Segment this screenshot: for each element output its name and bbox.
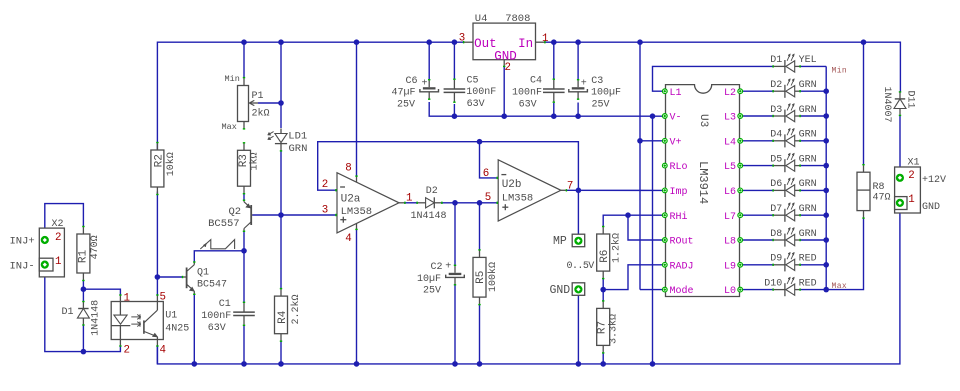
- wire LED D3 cathode to pin L3: [743, 115, 774, 117]
- junction Q1 emitter / ground: [192, 361, 198, 367]
- wire R5 top lead: [479, 203, 481, 251]
- wire R2 bottom to Q1 base junction: [156, 192, 158, 278]
- junction LED D8 / bus: [823, 237, 829, 243]
- svg-text:ROut: ROut: [670, 237, 694, 248]
- wire MP measuring point feed: [577, 190, 579, 237]
- resistor R2: [156, 143, 158, 150]
- capacitor C6: [428, 80, 430, 87]
- wire C4 bottom lead: [553, 103, 555, 116]
- svg-text:D1: D1: [62, 307, 74, 318]
- wire R3 bottom to Q2 emitter: [243, 194, 245, 201]
- LED D4 GRN: [784, 134, 786, 147]
- svg-text:2: 2: [322, 179, 328, 191]
- wire R7 bottom lead: [602, 353, 604, 364]
- svg-text:3.3kΩ: 3.3kΩ: [607, 314, 619, 344]
- pin V+ (U3 left): [662, 138, 667, 143]
- junction LED D10 / bus: [823, 287, 829, 293]
- wire divider junction to RADJ jog: [603, 265, 662, 290]
- svg-text:D6: D6: [770, 179, 782, 190]
- wire LED D4 cathode to pin L4: [743, 140, 774, 142]
- wire LED D3 anode to bus: [800, 115, 827, 117]
- svg-text:R1: R1: [77, 250, 89, 264]
- junction X2-1/D1/U1 pin2: [81, 349, 87, 355]
- svg-text:+: +: [581, 79, 587, 90]
- wire U2a pin2 feedback loop: [318, 142, 579, 191]
- svg-text:D8: D8: [770, 229, 782, 240]
- svg-text:U1: U1: [165, 311, 177, 322]
- wire D1 bottom node to U1 pin2: [83, 346, 120, 352]
- wire C2 bottom lead: [454, 284, 456, 364]
- optocoupler U1: [111, 302, 163, 340]
- svg-text:5: 5: [485, 192, 491, 204]
- svg-text:L0: L0: [724, 286, 736, 297]
- svg-text:P1: P1: [252, 91, 264, 102]
- junction LED D9 / bus: [823, 262, 829, 268]
- svg-text:L6: L6: [724, 187, 736, 198]
- junction C3 / rail: [575, 39, 581, 45]
- svg-text:1kΩ: 1kΩ: [248, 152, 260, 170]
- pin RHi (U3 left): [662, 213, 667, 218]
- LED D5 GRN: [784, 159, 786, 172]
- svg-text:R2: R2: [153, 154, 165, 167]
- capacitor C5: [453, 80, 455, 89]
- svg-text:1N4007: 1N4007: [881, 86, 892, 122]
- pin Mode (U3 left): [662, 287, 667, 292]
- pin L2 (U3 right): [738, 89, 743, 94]
- wire LED D5 cathode to pin L5: [743, 165, 774, 167]
- svg-text:C4: C4: [530, 76, 542, 87]
- svg-text:Min: Min: [832, 66, 848, 75]
- wire C5 top lead: [453, 42, 455, 79]
- junction LED D3 / bus: [823, 113, 829, 119]
- svg-text:63V: 63V: [467, 99, 485, 110]
- svg-text:D11: D11: [904, 90, 915, 108]
- wire R4 bottom lead: [280, 341, 282, 364]
- wire Q2 base to U2a pin3: [253, 214, 336, 216]
- capacitor C2: [454, 266, 456, 273]
- svg-text:C3: C3: [591, 76, 603, 87]
- wire R5 bottom lead: [479, 304, 481, 364]
- wire C1 bottom lead: [243, 325, 245, 364]
- transistor Q2: [250, 205, 252, 225]
- svg-text:Min: Min: [225, 74, 240, 84]
- svg-text:C6: C6: [406, 76, 418, 87]
- pin L1 (U3 left): [662, 89, 667, 94]
- LED D7 GRN: [784, 209, 786, 222]
- junction U4 GND / V- bus: [501, 113, 507, 119]
- pin V- (U3 left): [662, 114, 667, 119]
- svg-text:63V: 63V: [208, 323, 226, 334]
- junction C2 / ground: [452, 361, 458, 367]
- svg-text:+12V: +12V: [922, 175, 946, 186]
- svg-text:0..5V: 0..5V: [567, 261, 595, 272]
- svg-text:2: 2: [124, 345, 130, 357]
- IC U3 LM3914: [666, 85, 740, 297]
- LED D2 GRN: [784, 85, 786, 98]
- diode D11: [895, 98, 905, 100]
- op-amp U2b: [498, 160, 561, 221]
- svg-text:L9: L9: [724, 261, 736, 272]
- junction sawtooth node: [241, 248, 247, 254]
- svg-text:100nF: 100nF: [512, 88, 542, 99]
- junction op-amp pin4 / ground: [354, 361, 360, 367]
- svg-text:LM358: LM358: [502, 192, 534, 204]
- svg-text:6: 6: [483, 168, 489, 180]
- wire LED D8 anode to bus: [800, 239, 827, 241]
- svg-text:R4: R4: [277, 310, 289, 324]
- pin L4 (U3 right): [738, 138, 743, 143]
- wire LED D2 anode to bus: [800, 90, 827, 92]
- svg-text:R5: R5: [475, 271, 487, 284]
- svg-text:R7: R7: [596, 321, 608, 334]
- wire Mode pin connection: [640, 289, 662, 291]
- svg-text:7: 7: [567, 181, 573, 193]
- wire D11 cathode lead: [899, 91, 901, 94]
- svg-text:47Ω: 47Ω: [873, 193, 891, 204]
- svg-text:R6: R6: [599, 250, 611, 263]
- svg-text:D7: D7: [770, 204, 782, 215]
- svg-text:GRN: GRN: [799, 204, 817, 215]
- svg-text:Mode: Mode: [670, 285, 694, 297]
- junction LED D5 / bus: [823, 163, 829, 169]
- svg-text:D2: D2: [770, 80, 782, 91]
- svg-text:3: 3: [459, 32, 465, 44]
- svg-text:470Ω: 470Ω: [90, 235, 101, 259]
- wire C3 bottom lead: [577, 103, 579, 117]
- junction C6 / rail: [426, 39, 432, 45]
- LED LD1: [280, 129, 282, 134]
- svg-text:D3: D3: [770, 105, 782, 116]
- junction V+ feed / rail: [637, 39, 643, 45]
- svg-text:100nF: 100nF: [466, 87, 496, 98]
- transistor Q1: [186, 268, 188, 289]
- junction Q2 base node: [278, 212, 284, 218]
- LED D3 GRN: [784, 110, 786, 123]
- svg-text:GRN: GRN: [799, 229, 817, 240]
- svg-text:8: 8: [345, 163, 351, 175]
- svg-text:1N4148: 1N4148: [91, 300, 102, 336]
- junction C4 / V- bus: [551, 113, 557, 119]
- junction V- branch / ground: [650, 361, 656, 367]
- wire C2 top lead: [454, 203, 456, 265]
- svg-text:X1: X1: [908, 158, 920, 169]
- junction GND pad / ground: [576, 361, 582, 367]
- wire R6 bottom to divider junction: [602, 278, 604, 290]
- wire R1 bottom to D1 node: [82, 280, 84, 289]
- svg-text:GRN: GRN: [799, 154, 817, 165]
- wire D2 cathode to U2b pin5: [442, 202, 497, 204]
- resistor R3: [243, 143, 245, 150]
- svg-text:X2: X2: [52, 219, 64, 230]
- wire P1 top feed: [243, 42, 245, 78]
- svg-text:RED: RED: [799, 254, 817, 265]
- junction RHi/ROut tap: [625, 212, 631, 218]
- wire D1 anode lead: [82, 325, 84, 352]
- svg-text:C2: C2: [431, 262, 443, 273]
- diode D2: [418, 202, 426, 204]
- svg-text:25V: 25V: [423, 285, 441, 296]
- capacitor C1: [243, 303, 245, 312]
- wire R8 top lead: [863, 42, 865, 165]
- wire R2 top lead: [156, 147, 158, 150]
- svg-text:L7: L7: [724, 212, 736, 223]
- svg-text:U4: U4: [475, 13, 488, 25]
- wire LED D4 anode to bus: [800, 140, 827, 142]
- wire R4 top lead: [280, 215, 282, 289]
- svg-text:MP: MP: [553, 235, 567, 248]
- svg-text:2.2kΩ: 2.2kΩ: [290, 294, 302, 324]
- svg-text:LD1: LD1: [288, 130, 307, 142]
- wire P1 wiper to junction: [258, 102, 281, 104]
- svg-text:100µF: 100µF: [591, 88, 621, 99]
- wire V- rail (caps bottom bus): [429, 102, 662, 116]
- pin L0 (U3 right): [738, 287, 743, 292]
- svg-text:4N25: 4N25: [165, 323, 189, 334]
- svg-text:INJ+: INJ+: [10, 236, 35, 248]
- wire Q1 collector to sawtooth node: [194, 251, 244, 263]
- wire D1 cathode lead: [82, 289, 84, 302]
- junction R1/D1/U1 pin1: [81, 286, 87, 292]
- svg-text:2kΩ: 2kΩ: [252, 108, 270, 120]
- junction C3 / V- bus: [575, 113, 581, 119]
- wire L1 overpass to LED D1: [653, 66, 774, 91]
- resistor R1: [82, 227, 84, 234]
- LED D10 RED: [784, 283, 786, 296]
- wire LED D2 cathode to pin L2: [743, 90, 774, 92]
- svg-text:V-: V-: [670, 113, 682, 124]
- junction C5 / rail: [452, 39, 458, 45]
- wire U2b output to Imp pin: [566, 189, 662, 191]
- svg-text:D4: D4: [770, 130, 782, 141]
- junction C5 / V- bus: [452, 113, 458, 119]
- connector X1: [895, 167, 921, 213]
- pin L8 (U3 right): [738, 238, 743, 243]
- LED D6 GRN: [784, 184, 786, 197]
- svg-text:D2: D2: [426, 186, 438, 197]
- junction LED D7 / bus: [823, 212, 829, 218]
- svg-text:10µF: 10µF: [417, 274, 441, 285]
- wire LED D1 anode to bus: [800, 65, 827, 67]
- svg-text:+: +: [445, 262, 451, 273]
- wire GND pad to ground rail: [577, 293, 579, 364]
- svg-text:INJ-: INJ-: [10, 261, 35, 273]
- wire C1 top lead: [243, 251, 245, 303]
- svg-text:7808: 7808: [505, 13, 530, 25]
- junction R8 / rail: [861, 39, 867, 45]
- junction LED D2 / bus: [823, 88, 829, 94]
- wire D11 anode to X1 pin2: [899, 116, 901, 175]
- svg-text:5: 5: [160, 292, 166, 304]
- svg-text:V+: V+: [670, 137, 682, 148]
- LED D8 GRN: [784, 234, 786, 247]
- wire R7 top lead: [602, 290, 604, 302]
- svg-text:2: 2: [505, 62, 511, 74]
- svg-text:25V: 25V: [592, 99, 610, 110]
- svg-text:2: 2: [908, 170, 914, 182]
- svg-text:GRN: GRN: [799, 80, 817, 91]
- wire Q1 emitter to ground: [193, 294, 195, 364]
- svg-text:2: 2: [55, 232, 61, 244]
- wire X2 pin1 to D1 bottom node: [45, 269, 84, 352]
- svg-text:1: 1: [406, 193, 412, 205]
- svg-text:C1: C1: [219, 299, 231, 310]
- connector X2: [39, 228, 64, 277]
- junction R4 / ground: [278, 361, 284, 367]
- junction V- bus / ground branch: [650, 113, 656, 119]
- svg-text:RLo: RLo: [670, 162, 688, 173]
- svg-text:C5: C5: [467, 75, 479, 86]
- svg-text:YEL: YEL: [799, 55, 817, 66]
- svg-text:1: 1: [55, 256, 61, 268]
- svg-text:L3: L3: [724, 113, 736, 124]
- svg-text:3: 3: [322, 204, 328, 216]
- svg-text:GRN: GRN: [289, 143, 308, 155]
- op-amp U2a: [337, 173, 399, 233]
- svg-text:GRN: GRN: [799, 179, 817, 190]
- wire LED D10 anode to bus: [800, 289, 827, 291]
- svg-text:LM3914: LM3914: [696, 161, 710, 204]
- wire top rail +12V segment (U4 In to right): [545, 42, 901, 92]
- junction C1 / ground: [241, 361, 247, 367]
- wire U2a output to D2 anode: [405, 202, 418, 204]
- wire op-amp V+ pin 8 feed: [356, 42, 358, 176]
- svg-text:D9: D9: [770, 254, 782, 265]
- resistor R7: [602, 301, 604, 308]
- measuring point GND: [572, 283, 585, 296]
- pin L3 (U3 right): [738, 114, 743, 119]
- pin L6 (U3 right): [738, 188, 743, 193]
- wire X2 pin2 to R1: [45, 204, 84, 236]
- junction feedback / pin6 tap: [477, 139, 483, 145]
- junction LD1 column / rail: [278, 39, 284, 45]
- wire RHi to ROut jog: [628, 215, 662, 240]
- svg-text:BC557: BC557: [208, 218, 240, 230]
- wire V+/Mode vertical from rail: [639, 42, 641, 289]
- svg-text:In: In: [518, 37, 533, 51]
- wire ground rail (bottom): [157, 207, 900, 364]
- junction U2b output node: [576, 188, 582, 194]
- svg-text:BC547: BC547: [197, 280, 227, 291]
- wire LED D8 cathode to pin L8: [743, 239, 774, 241]
- capacitor C4: [553, 80, 555, 89]
- svg-text:U2a: U2a: [341, 194, 361, 206]
- svg-text:RED: RED: [799, 278, 817, 289]
- svg-text:L4: L4: [724, 137, 736, 148]
- svg-text:U3: U3: [697, 114, 709, 127]
- wire LED D7 cathode to pin L7: [743, 214, 774, 216]
- junction LED D4 / bus: [823, 138, 829, 144]
- svg-text:D1: D1: [770, 55, 782, 66]
- svg-text:GRN: GRN: [799, 105, 817, 116]
- svg-text:100kΩ: 100kΩ: [487, 262, 499, 292]
- wire C4 top lead: [553, 42, 555, 79]
- LED D9 RED: [784, 258, 786, 271]
- svg-text:1N4148: 1N4148: [411, 211, 447, 222]
- wire LD1 cathode to Q2 base junction: [280, 151, 282, 215]
- junction C2 tap: [452, 200, 458, 206]
- wire C5 bottom lead: [453, 104, 455, 116]
- wire C6 top lead: [428, 42, 430, 80]
- junction R7 / ground: [600, 361, 606, 367]
- pin L9 (U3 right): [738, 262, 743, 267]
- junction R6/R7 divider: [600, 287, 606, 293]
- wire V+ pin connection: [640, 140, 662, 142]
- svg-text:1: 1: [542, 33, 548, 45]
- junction LED D6 / bus: [823, 188, 829, 194]
- svg-text:Imp: Imp: [670, 187, 688, 198]
- wire LED D6 anode to bus: [800, 189, 827, 191]
- wire LED bus (anodes): [826, 66, 863, 289]
- svg-text:100nF: 100nF: [201, 311, 231, 322]
- svg-text:U2b: U2b: [502, 179, 522, 191]
- potentiometer P1: [243, 78, 245, 86]
- svg-text:Max: Max: [832, 282, 848, 291]
- wire C3 top lead: [577, 42, 579, 80]
- wire Q2 collector to C1 node: [243, 231, 245, 251]
- svg-text:L2: L2: [724, 88, 736, 99]
- svg-text:1.2kΩ: 1.2kΩ: [610, 233, 622, 263]
- junction R5 tap: [477, 200, 483, 206]
- svg-text:4: 4: [345, 233, 351, 245]
- junction Q1 base node: [155, 274, 161, 280]
- svg-text:L1: L1: [670, 88, 682, 99]
- junction P1 wiper: [278, 100, 284, 106]
- svg-text:RADJ: RADJ: [670, 261, 694, 272]
- pin Imp (U3 left): [662, 188, 667, 193]
- wire LD1 column: rail to wiper junction: [280, 42, 282, 103]
- junction V+ pin: [637, 138, 643, 144]
- svg-text:Q2: Q2: [229, 206, 242, 218]
- svg-text:LM358: LM358: [341, 206, 373, 218]
- wire LED D10 cathode to pin L0: [743, 289, 774, 291]
- pin RLo (U3 left): [662, 163, 667, 168]
- svg-text:RHi: RHi: [670, 211, 688, 223]
- resistor R4: [280, 289, 282, 296]
- svg-text:GND: GND: [922, 202, 940, 213]
- svg-text:1: 1: [124, 293, 130, 305]
- measuring point MP: [572, 234, 585, 247]
- wire LED D7 anode to bus: [800, 214, 827, 216]
- wire U1 pin4 to ground rail: [156, 346, 158, 364]
- junction P1 top / rail: [241, 39, 247, 45]
- wire U4 GND pin 2 lead: [503, 66, 505, 116]
- wire LED D6 cathode to pin L6: [743, 189, 774, 191]
- wire LD1 anode: [280, 103, 282, 128]
- voltage regulator U4: [473, 23, 536, 60]
- wire D1 node to U1 pin1: [83, 289, 120, 295]
- junction C4 / rail: [551, 39, 557, 45]
- svg-text:L5: L5: [724, 162, 736, 173]
- wire LED D9 anode to bus: [800, 264, 827, 266]
- diode D1: [78, 308, 88, 310]
- svg-text:D10: D10: [764, 278, 782, 289]
- svg-text:R8: R8: [873, 182, 885, 193]
- wire R6 top to RHi: [603, 215, 662, 227]
- resistor R6: [602, 227, 604, 234]
- svg-text:GRN: GRN: [799, 130, 817, 141]
- svg-text:47µF: 47µF: [392, 88, 416, 99]
- wire U1 pin5 feed: [156, 277, 158, 296]
- capacitor C3: [577, 80, 579, 87]
- svg-text:10kΩ: 10kΩ: [165, 152, 177, 176]
- svg-text:GND: GND: [550, 284, 571, 297]
- wire +8V rail (regulator output, top left): [157, 42, 464, 147]
- sawtooth waveform symbol: [200, 240, 234, 249]
- svg-text:63V: 63V: [519, 100, 537, 111]
- pin ROut (U3 left): [662, 238, 667, 243]
- resistor R5: [479, 250, 481, 257]
- wire LED D5 anode to bus: [800, 165, 827, 167]
